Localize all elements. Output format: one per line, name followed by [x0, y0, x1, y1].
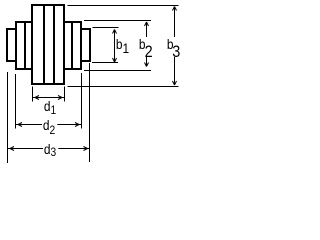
center block interior line F: [53, 4, 55, 85]
b2 dimension line: [146, 22, 148, 67]
b2 bottom extension line: [84, 70, 151, 72]
b3 bottom extension line: [68, 86, 179, 88]
d3 right extension line: [89, 63, 91, 162]
d3 left extension line: [7, 72, 9, 163]
center block right edge G: [63, 4, 65, 85]
center block left edge D: [31, 4, 33, 85]
d1 arrow left: [35, 96, 39, 100]
medium block right interior line H: [71, 21, 73, 70]
b3 arrow up: [173, 7, 177, 11]
b1 dimension line: [114, 30, 116, 63]
medium block left bottom edge: [15, 68, 33, 70]
d1 dimension line: [33, 97, 64, 99]
b1 top extension line: [93, 27, 119, 29]
medium block left edge B: [15, 21, 17, 70]
label d2: [42, 118, 58, 133]
small block left outer edge A: [6, 28, 8, 62]
d1 left extension line: [32, 87, 34, 102]
label d3: [43, 142, 59, 157]
b1 arrow down: [113, 58, 117, 62]
medium block left top edge: [15, 21, 33, 23]
center block bottom edge: [31, 83, 65, 85]
small block right top edge: [80, 28, 91, 30]
b1 bottom extension line: [92, 62, 118, 64]
d2 dimension line: [16, 124, 81, 126]
small block right bottom edge: [80, 60, 91, 62]
d2 arrow left: [18, 123, 22, 127]
label b3: [166, 37, 181, 57]
d3 dimension line: [8, 148, 90, 150]
d1 arrow right: [58, 96, 62, 100]
b2 arrow up: [145, 22, 149, 26]
b2 arrow down: [145, 63, 149, 67]
small block right outer edge J: [89, 28, 91, 62]
small block left bottom edge: [6, 60, 17, 62]
medium block right edge I: [80, 21, 82, 70]
d3 arrow left: [10, 147, 14, 151]
medium block right top edge: [63, 21, 82, 23]
d2 arrow right: [75, 123, 79, 127]
d3 arrow right: [84, 147, 88, 151]
b3 dimension line: [174, 7, 176, 86]
label b1: [115, 37, 130, 51]
medium block left interior line C: [24, 21, 26, 70]
d2 right extension line: [81, 73, 83, 129]
d1 right extension line: [64, 87, 66, 102]
center block top edge: [31, 4, 65, 6]
b1 arrow up: [113, 30, 117, 34]
label b2: [138, 37, 154, 57]
label d1: [43, 99, 57, 114]
b3 top extension line: [68, 5, 179, 7]
center block interior line E: [43, 4, 45, 85]
b2 top extension line: [84, 20, 151, 22]
medium block right bottom edge: [63, 68, 82, 70]
b3 arrow down: [173, 81, 177, 85]
d2 left extension line: [15, 74, 17, 129]
small block left top edge: [6, 28, 17, 30]
